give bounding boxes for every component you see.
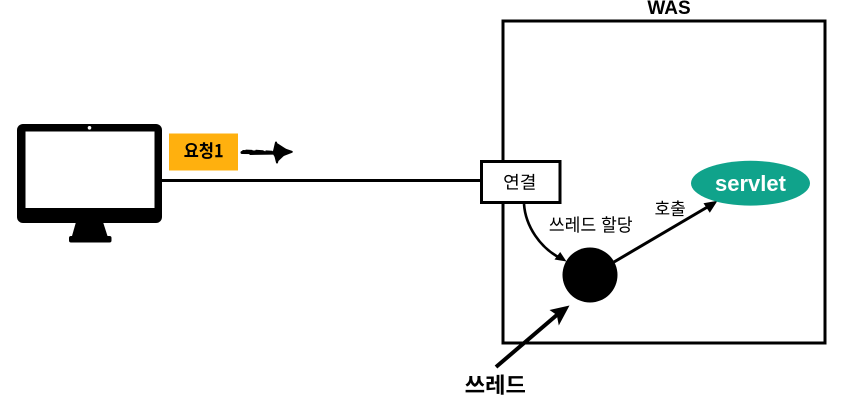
wire client to connection box [160,179,481,182]
sketchy request arrow [242,150,277,154]
label 요청1 [184,142,222,159]
client monitor icon [17,124,162,243]
arrow: thread to servlet (호출) [614,206,710,263]
thick arrow: 쓰레드 pointer [496,314,558,367]
svg-text:servlet: servlet [715,171,787,196]
WAS container box [503,21,825,343]
curve: connection to thread (쓰레드 할당) [524,204,561,259]
request box (orange) [169,134,238,171]
label 쓰레드 할당 [550,216,632,233]
servlet ellipse [691,161,810,206]
svg-text:WAS: WAS [647,0,690,19]
label 호출 [655,200,684,216]
connection box 연결 [482,162,561,203]
thread circle [563,248,618,303]
label 쓰레드 [465,375,525,395]
label 연결 [504,174,534,190]
